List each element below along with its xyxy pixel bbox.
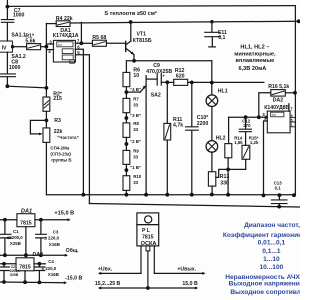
svg-text:“4 В”: “4 В” bbox=[130, 87, 141, 92]
resistor R11 4,7k bbox=[166, 82, 168, 123]
svg-text:C4: C4 bbox=[48, 259, 54, 264]
node: TO-220 middle leg bbox=[146, 286, 150, 290]
svg-text:СП4-2Ма: СП4-2Ма bbox=[50, 145, 69, 150]
wire: TO-220 legs bbox=[140, 246, 142, 274]
resistor R10 33 bbox=[123, 176, 130, 191]
svg-text:Х16В: Х16В bbox=[49, 242, 60, 247]
wire PSU +15 out bbox=[35, 219, 69, 221]
node: regulators gnd bbox=[24, 253, 28, 257]
wire DA1 gnd pin bbox=[25, 227, 27, 256]
node: bus pin6 bbox=[82, 193, 86, 197]
wire R16 left to input net bbox=[259, 93, 271, 117]
svg-text:7815: 7815 bbox=[19, 264, 31, 270]
svg-text:215: 215 bbox=[53, 96, 62, 102]
svg-text:Выходное сопротивление: Выходное сопротивление bbox=[230, 289, 300, 296]
svg-text:R3: R3 bbox=[54, 118, 61, 124]
wire PSU +in bbox=[0, 219, 17, 221]
node: bus R14 bbox=[226, 193, 230, 197]
svg-text:миниатюрные,: миниатюрные, bbox=[234, 51, 276, 57]
node: bus SA2 bbox=[144, 193, 148, 197]
node: C1 bottom bbox=[3, 253, 7, 257]
svg-text:VT1: VT1 bbox=[137, 31, 147, 37]
svg-text:группы Б: группы Б bbox=[51, 157, 71, 162]
wire: ground bus y=194 bbox=[46, 194, 295, 196]
node: rail end dot right edge bbox=[297, 19, 301, 23]
node: bus R11 bbox=[165, 193, 169, 197]
svg-text:470,0Х25В: 470,0Х25В bbox=[146, 69, 172, 75]
wire SA2 arm bbox=[140, 86, 146, 92]
resistor R9 33 bbox=[123, 150, 130, 164]
node: C10 top bbox=[190, 81, 194, 85]
wire R8-R9 bbox=[125, 137, 127, 150]
svg-text:620: 620 bbox=[176, 74, 185, 80]
svg-text:R8: R8 bbox=[133, 121, 139, 126]
svg-text:R9: R9 bbox=[133, 149, 139, 154]
resistor R6 10 bbox=[123, 72, 130, 86]
wire R7-R8 bbox=[125, 113, 127, 123]
wire R4 left bbox=[46, 23, 56, 25]
svg-text:270: 270 bbox=[243, 123, 251, 128]
svg-text:Х25В: Х25В bbox=[10, 241, 21, 246]
svg-text:К174ХД1А: К174ХД1А bbox=[53, 33, 79, 39]
svg-text:“1 В”: “1 В” bbox=[130, 165, 141, 170]
svg-text:0,1: 0,1 bbox=[218, 35, 225, 41]
svg-text:вплавляемые: вплавляемые bbox=[236, 58, 275, 64]
svg-text:R10: R10 bbox=[133, 174, 142, 179]
svg-text:+15,0 В: +15,0 В bbox=[54, 211, 74, 217]
wire: node column x=46 (R4/pin3/pin4/R2) bbox=[45, 23, 47, 97]
svg-text:7: 7 bbox=[77, 38, 80, 43]
svg-text:33: 33 bbox=[133, 155, 138, 160]
svg-text:(СП3-23а): (СП3-23а) bbox=[50, 151, 71, 156]
node: C13 on bus2 bbox=[277, 205, 281, 209]
wire R1 to node A bbox=[41, 46, 47, 48]
svg-text:R7: R7 bbox=[133, 97, 139, 102]
svg-text:SA2: SA2 bbox=[151, 93, 161, 99]
svg-text:1,6k: 1,6k bbox=[234, 140, 243, 145]
wire: DA2 input net y=117 bbox=[229, 116, 268, 118]
svg-text:“2 В”: “2 В” bbox=[130, 139, 141, 144]
switch SA1 wafer box IV bbox=[0, 41, 12, 52]
svg-text:± 220,0: ± 220,0 bbox=[44, 236, 59, 241]
wire to R14 top bbox=[228, 117, 230, 143]
wire: input rail top y=5 bbox=[7, 5, 295, 8]
svg-text:HL2: HL2 bbox=[216, 136, 226, 142]
capacitor C11 0,1 bbox=[210, 20, 213, 23]
wire R13 to bus bbox=[211, 186, 213, 195]
wire DA2 pin7 stub bbox=[288, 104, 290, 111]
svg-text:1000: 1000 bbox=[9, 65, 21, 71]
svg-text:6,3В 20мА: 6,3В 20мА bbox=[239, 66, 267, 72]
node: tap 2V bbox=[125, 142, 129, 146]
wire: rail y=21 R4 to right edge bbox=[70, 21, 299, 23]
capacitor C1 2200,0 bbox=[4, 220, 6, 234]
node: lamp column crossing bbox=[210, 81, 214, 85]
capacitor C2 2200,0 bbox=[3, 264, 5, 267]
node: bus R10 bbox=[125, 193, 129, 197]
node: C8 bottom bbox=[6, 84, 10, 88]
svg-text:1000: 1000 bbox=[13, 13, 25, 19]
svg-text:+Uвх.: +Uвх. bbox=[98, 267, 113, 273]
wire R14 to bus bbox=[227, 158, 229, 195]
svg-text:6: 6 bbox=[291, 114, 293, 118]
svg-text:P L: P L bbox=[142, 228, 151, 234]
svg-text:33: 33 bbox=[133, 103, 138, 108]
svg-text:SA1.1: SA1.1 bbox=[11, 33, 26, 39]
svg-text:4,7k: 4,7k bbox=[173, 123, 183, 129]
wire pin 4 stub bbox=[46, 49, 53, 51]
node: R11 top bbox=[165, 80, 169, 84]
node: bus R13 bbox=[210, 193, 214, 197]
wire C8 to R2 node bbox=[7, 86, 46, 88]
node: C3 bottom bbox=[39, 253, 43, 257]
svg-text:2200: 2200 bbox=[197, 121, 209, 127]
wire PSU -reg right bbox=[34, 263, 45, 265]
wire: DA1 pin 5 down to second bus bbox=[75, 55, 89, 204]
wire: DA1 pin 7 bbox=[75, 42, 81, 44]
node: bus C13 bbox=[278, 193, 282, 197]
wire: DA1 pin 6 down to ground bus bbox=[75, 49, 83, 194]
wire HL1 to HL2 bbox=[211, 107, 213, 141]
svg-text:Диапазон частот,: Диапазон частот, bbox=[244, 222, 300, 229]
capacitor C3 220,0 bbox=[40, 220, 42, 234]
svg-text:C3: C3 bbox=[53, 229, 59, 234]
svg-text:0,01...0,1: 0,01...0,1 bbox=[258, 240, 286, 247]
svg-text:± 220,0: ± 220,0 bbox=[42, 266, 57, 271]
svg-text:1,2k: 1,2k bbox=[250, 140, 259, 145]
wire: emitter line to lamp column bbox=[134, 60, 212, 62]
node: C2 bottom bbox=[2, 280, 6, 284]
wire R12 right bbox=[188, 81, 192, 83]
node: C2 top bbox=[2, 262, 6, 266]
wire R12 node to right (fading) bbox=[192, 81, 264, 83]
node: R3 wiper tie bbox=[45, 119, 49, 123]
wire C9 right bbox=[161, 81, 167, 83]
svg-text:10...100: 10...100 bbox=[259, 264, 283, 271]
wire PSU -in bbox=[0, 263, 16, 265]
wire R11 to bus bbox=[166, 140, 168, 195]
capacitor C8 bbox=[6, 52, 8, 73]
node: input top-left junction bbox=[6, 5, 10, 9]
svg-text:33: 33 bbox=[133, 127, 138, 132]
wire: right vertical rail x=295 bbox=[294, 6, 296, 195]
node: tap 4V bbox=[125, 90, 129, 94]
wire R3 wiper loop bbox=[30, 120, 46, 133]
node: pin7/R4/R5 junction bbox=[80, 41, 84, 45]
node: SA1 pole bbox=[11, 45, 14, 48]
node: collector on rail bbox=[129, 20, 133, 24]
svg-text:33: 33 bbox=[133, 180, 138, 185]
svg-text:HL1, HL2 –: HL1, HL2 – bbox=[240, 45, 269, 51]
svg-text:К140УД8Б: К140УД8Б bbox=[264, 105, 289, 111]
node: R16 output on rail bbox=[293, 91, 297, 95]
svg-text:>∞: >∞ bbox=[58, 43, 63, 47]
node A: R1/pin3/pin4 junction bbox=[45, 45, 49, 49]
wire R10 to bus bbox=[125, 190, 127, 194]
svg-text:HL1: HL1 bbox=[218, 89, 228, 95]
svg-text:DA2: DA2 bbox=[32, 252, 42, 258]
node: tap 3V bbox=[125, 116, 129, 120]
svg-text:Х25В: Х25В bbox=[10, 273, 19, 277]
wire tap to SA2 bbox=[126, 91, 140, 93]
node: C4 bottom bbox=[38, 281, 42, 285]
svg-text:S теплоотв ≥50 см²: S теплоотв ≥50 см² bbox=[104, 10, 157, 17]
wire HL2 to R13 bbox=[211, 152, 213, 172]
svg-text:КТ815Б: КТ815Б bbox=[133, 38, 152, 44]
wire: second bus y=203-207 bbox=[89, 204, 300, 208]
svg-text:+: + bbox=[162, 74, 165, 79]
wire R2 to R3 bbox=[45, 111, 47, 128]
node: tap 1V bbox=[125, 168, 129, 172]
node: C12 top bbox=[244, 115, 248, 119]
svg-text:±2200,0: ±2200,0 bbox=[7, 235, 23, 240]
svg-text:5: 5 bbox=[291, 118, 293, 122]
wire DA2psu gnd stub bbox=[25, 255, 27, 258]
svg-text:15,2...25 В: 15,2...25 В bbox=[95, 281, 121, 287]
capacitor C7 bbox=[6, 0, 8, 19]
svg-text:DA2: DA2 bbox=[273, 98, 283, 104]
capacitor C4 220,0 bbox=[38, 264, 40, 267]
wire pin7 node up to rail bbox=[80, 22, 82, 43]
wire VT1 collector bbox=[126, 22, 131, 45]
TO-220 package 7815 pinout bbox=[137, 213, 159, 225]
wire SA1 pole to R1 bbox=[12, 46, 26, 48]
wire R5 to VT1 base bbox=[106, 42, 125, 44]
wire R6-R7 bbox=[125, 87, 127, 99]
node: C1 top bbox=[3, 218, 7, 222]
node: R16 left bbox=[257, 115, 261, 119]
svg-text:Коэффициент гармоник, %: Коэффициент гармоник, % bbox=[223, 232, 300, 239]
wire: PSU -15 rail bbox=[0, 281, 65, 284]
wire: TO-220 input lead bbox=[99, 272, 141, 274]
node: bus right rail bbox=[292, 193, 296, 197]
node: R2 top bbox=[45, 86, 49, 90]
svg-text:7815: 7815 bbox=[142, 235, 154, 241]
svg-text:+Uвых.: +Uвых. bbox=[177, 267, 196, 273]
svg-text:>∞: >∞ bbox=[272, 113, 277, 117]
svg-text:Х16В: Х16В bbox=[48, 272, 59, 277]
svg-text:0,1...1: 0,1...1 bbox=[262, 248, 281, 255]
svg-text:1: 1 bbox=[291, 123, 293, 127]
wire: TO-220 common lead bbox=[99, 287, 196, 289]
svg-text:C1: C1 bbox=[13, 229, 19, 234]
svg-text:15,0 В: 15,0 В bbox=[182, 281, 198, 287]
node: C4 top bbox=[38, 262, 42, 266]
wire R12 left bbox=[167, 81, 173, 83]
resistor R13 330 bbox=[208, 172, 215, 186]
node: R14 bottom bbox=[226, 168, 230, 172]
svg-text:0,1: 0,1 bbox=[275, 185, 282, 190]
wire pin7 node to R5 bbox=[81, 42, 92, 44]
svg-text:Выходное напряжение, В: Выходное напряжение, В bbox=[229, 281, 300, 288]
wire R16 right bbox=[285, 92, 295, 94]
wire R9-R10 bbox=[125, 164, 127, 175]
resistor R7 33 bbox=[123, 98, 130, 112]
svg-text:7: 7 bbox=[290, 107, 293, 112]
wire pin 3 stub bbox=[46, 43, 53, 45]
resistor R8 33 bbox=[123, 123, 130, 137]
svg-text:“Частота”: “Частота” bbox=[57, 135, 79, 140]
wire DA2 right pins bbox=[290, 117, 295, 126]
node: bus DA2 pin4 bbox=[262, 194, 266, 198]
wire DA2psu out pin bbox=[24, 271, 26, 282]
wire down to HL1 bbox=[211, 61, 213, 95]
node: bus C10 bbox=[190, 193, 194, 197]
svg-text:Общ.: Общ. bbox=[66, 247, 80, 254]
wire SA2 common down to bus bbox=[145, 76, 147, 195]
svg-text:3: 3 bbox=[262, 112, 265, 117]
wire DA2 pin4 down to bus bbox=[264, 121, 268, 196]
svg-text:7815: 7815 bbox=[20, 221, 32, 227]
svg-text:1...10: 1...10 bbox=[263, 256, 280, 263]
svg-text:“3 В”: “3 В” bbox=[130, 113, 141, 118]
node: C3 top bbox=[39, 218, 43, 222]
svg-text:10: 10 bbox=[133, 73, 139, 79]
wire R15 bottom bbox=[245, 159, 247, 169]
svg-text:IV: IV bbox=[2, 46, 7, 52]
wire: emitter to R6 chain bbox=[126, 61, 134, 73]
wire VT1 emitter bbox=[126, 48, 134, 61]
wire: PSU common rail bbox=[0, 254, 66, 256]
wire R14/R15 bottoms link bbox=[216, 169, 246, 177]
node: emitter junction bbox=[132, 59, 136, 63]
wire R3 to bus bbox=[45, 142, 47, 194]
svg-text:-15,0 В: -15,0 В bbox=[65, 275, 82, 281]
wire: TO-220 output lead bbox=[154, 272, 204, 274]
node: reg2 out bbox=[23, 280, 27, 284]
